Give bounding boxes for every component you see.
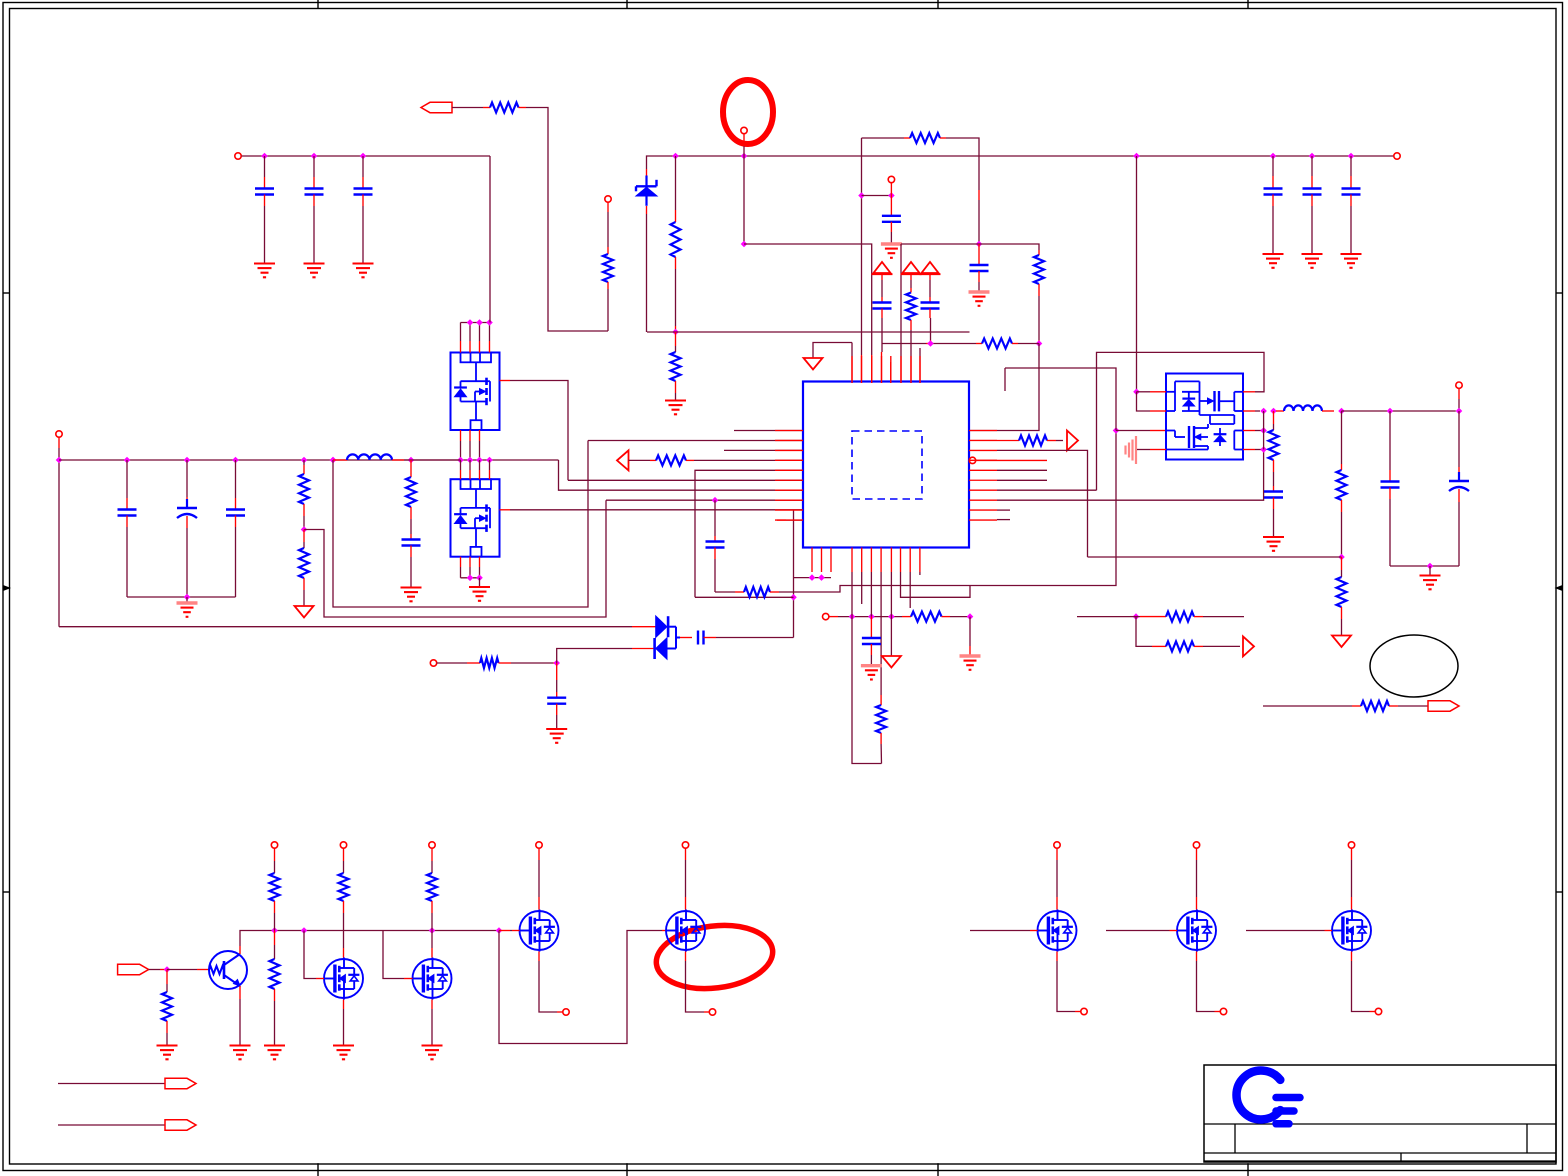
resistor R-616 <box>911 612 942 622</box>
resistor R-1273 chain <box>1273 411 1275 424</box>
junction 970-616 <box>967 613 974 620</box>
IC top pin stubs <box>851 358 853 383</box>
port out right <box>1067 431 1078 451</box>
ground 970 salmon <box>960 654 981 657</box>
junction cap bank2 3 <box>1348 153 1355 160</box>
junction 304-529 <box>301 526 308 533</box>
junction mid rail 304 <box>301 457 308 464</box>
resistor R-646 <box>1166 641 1194 651</box>
flag down right <box>1332 636 1351 648</box>
junction cap bank2 1 <box>1270 153 1277 160</box>
ground C-871 salmon <box>861 664 882 667</box>
capacitor C-891 <box>890 196 892 216</box>
wire to Q1 <box>167 969 197 971</box>
ground C-979 salmon <box>969 290 990 293</box>
black ellipse annotation <box>1370 635 1458 697</box>
wire port B <box>58 1124 165 1126</box>
resistor R-167 pulldown <box>166 970 168 985</box>
capacitor C13 <box>362 156 364 177</box>
junction mid rail 127 <box>124 457 131 464</box>
junction mid rail 235.5 <box>232 457 239 464</box>
Q-R right pin4 <box>1243 449 1255 451</box>
ground M1 <box>333 1044 354 1046</box>
border center arrow right <box>1555 585 1563 591</box>
capacitor C-871 <box>870 572 872 617</box>
wire sense out <box>1263 705 1352 707</box>
junction cap bank1 3 <box>360 153 367 160</box>
transistor Q1 prebiased NPN <box>209 951 247 989</box>
terminal 891 <box>888 176 894 182</box>
terminal diode input <box>430 660 436 666</box>
ground C12 <box>304 262 325 264</box>
resistor R-top-left <box>490 103 519 113</box>
wire vin1 rail <box>242 155 491 157</box>
junction mid rail fet 479.5 <box>476 457 483 464</box>
port out 706 <box>1428 701 1459 711</box>
ground 1273 <box>1263 536 1284 538</box>
resistor R-706 <box>1361 701 1389 711</box>
wire pin520 stub <box>777 519 786 521</box>
terminal stub mid <box>605 196 611 202</box>
red annotation ellipse top <box>723 80 773 144</box>
pullup R-343 <box>340 842 346 848</box>
resistor R-881 vertical chain <box>880 572 882 695</box>
vertical 793 <box>793 510 795 638</box>
terminal VSYS left <box>56 431 62 437</box>
terminal out <box>1456 382 1462 388</box>
resistor R-fb-top <box>910 133 940 143</box>
wire pin-r520 stub <box>997 519 1010 521</box>
wire out gnd row <box>1390 565 1459 567</box>
junction 557-663 <box>553 660 560 667</box>
zener diode D-zener <box>646 169 648 176</box>
IC top pins <box>851 382 853 384</box>
wire y616 row B <box>1077 616 1130 618</box>
wire y343 row <box>882 343 926 345</box>
junction zener-res node <box>672 153 679 160</box>
pullup R-274 chain <box>271 842 277 848</box>
junction R-a mid <box>672 329 679 336</box>
capacitor C21 <box>1272 156 1274 176</box>
M1 source gnd <box>343 1000 345 1010</box>
wire pin-r450 <box>997 450 1088 557</box>
junction cap bank2 2 <box>1309 153 1316 160</box>
capacitor C-127 <box>126 460 128 498</box>
wire pin480 <box>568 479 803 481</box>
title block frame <box>1204 1065 1556 1162</box>
vertical 861 long <box>861 138 863 355</box>
junction cap bank1 2 <box>311 153 318 160</box>
junction 744-244 <box>741 241 748 248</box>
resistor chain R-a <box>675 156 677 210</box>
wire zener row <box>647 331 970 333</box>
wire y368 elbow <box>1005 368 1116 431</box>
pgnd down flag left <box>295 606 314 618</box>
Q-R right pin3 <box>1243 430 1255 432</box>
chassis wire <box>1137 449 1150 451</box>
junction rail 1136 <box>1133 153 1140 160</box>
junction 167-969 <box>164 966 171 973</box>
wire mid rail <box>59 459 559 461</box>
Q1 collector wire <box>239 946 241 954</box>
wire pin-r510 stub <box>997 509 1010 511</box>
Q-B right pin <box>500 509 511 511</box>
M-1057 source <box>1056 952 1058 962</box>
M1 gate wire <box>304 931 316 979</box>
M3 gate wire <box>499 930 510 932</box>
pin 881 top <box>881 352 883 383</box>
wire pin-r480 stub <box>997 479 1047 481</box>
wire pin910 stub <box>909 572 911 608</box>
wire main VCC rail <box>647 156 1394 169</box>
port A <box>165 1078 196 1088</box>
Q-A top pins <box>460 323 462 342</box>
junction 979-244 <box>976 241 983 248</box>
wire pin470 <box>695 470 803 597</box>
M-1196.5 source <box>1196 952 1198 962</box>
junction 715-500 <box>712 497 719 504</box>
wire R-mid to corner <box>607 289 609 331</box>
pullup R-432 <box>429 842 435 848</box>
flag3 cap chain <box>929 275 931 281</box>
resistor R-fb-in <box>656 455 686 465</box>
node VIN1 terminal <box>235 153 241 159</box>
diode pair connector <box>669 626 676 628</box>
ground caps mid salmon <box>177 601 198 604</box>
resistor R-1039 <box>1038 250 1040 255</box>
junction 1116-430 <box>1113 427 1120 434</box>
port B <box>165 1120 196 1130</box>
IC bottom pins red <box>811 548 813 573</box>
inductor L2 <box>1284 405 1322 411</box>
border zone ticks bottom <box>317 1163 319 1176</box>
M-1351.5 source <box>1351 952 1353 962</box>
agnd down flag near IC <box>813 343 852 359</box>
wire pin-r500 long <box>997 450 1264 501</box>
diode D-up <box>632 626 656 628</box>
wire port to R <box>452 107 483 109</box>
wire pin440 <box>588 440 803 442</box>
wire 577 row <box>794 577 832 579</box>
junction bus 432 <box>429 927 436 934</box>
junction 793-597 <box>790 594 797 601</box>
terminal VCC right <box>1394 153 1400 159</box>
gate bus <box>275 930 500 932</box>
ground C23 <box>1341 253 1362 255</box>
ground M2 <box>422 1044 443 1046</box>
resistor R-mid vertical <box>603 254 613 282</box>
wire pin430 stub <box>734 430 803 432</box>
flag1 cap chain <box>881 275 883 281</box>
junction 1039-343 <box>1036 340 1043 347</box>
port ENABLE top-left <box>421 102 452 112</box>
dual MOSFET Q-B <box>451 479 500 557</box>
wire to right box pin3 <box>1116 430 1150 432</box>
ground 1430 <box>1420 574 1441 576</box>
MOSFET M1 <box>324 959 363 998</box>
junction 931-343 <box>927 340 934 347</box>
wire elbow 646 <box>1136 617 1152 647</box>
ground Q1 <box>230 1044 251 1046</box>
wire stub <box>607 212 609 247</box>
capacitor C-979 <box>978 244 980 265</box>
M-1351.5 drain <box>1348 842 1354 848</box>
MOSFET M3 <box>520 911 559 950</box>
IC right pins <box>969 430 997 432</box>
junction 1136-616 <box>1133 613 1140 620</box>
M-1057 drain <box>1054 842 1060 848</box>
wire y616 row A <box>838 616 902 618</box>
M4 drain <box>682 842 688 848</box>
border zone ticks left <box>3 292 10 294</box>
junction 861-195 <box>858 192 865 199</box>
wire pin500 <box>606 499 803 501</box>
wire y592 row <box>715 591 735 593</box>
junction mid rail 333 <box>330 457 337 464</box>
junction bus 499 <box>496 927 503 934</box>
M3 source out <box>538 952 540 962</box>
IC U1 body <box>803 382 969 548</box>
resistor R-diode <box>480 658 499 668</box>
wire diode net <box>557 649 632 664</box>
M2 gate wire <box>383 931 404 979</box>
ground 411 <box>401 586 422 588</box>
capacitor C-1390 <box>1389 411 1391 470</box>
wire R to down <box>526 108 608 332</box>
junction 187-597 <box>184 594 191 601</box>
resistor R-592 <box>744 587 770 597</box>
junction 59-460 <box>56 457 63 464</box>
border center arrow left <box>3 585 11 591</box>
resistor R-343 <box>982 339 1012 349</box>
MOSFET M-1351.5 <box>1332 911 1371 950</box>
wire bottom long rail <box>59 626 632 628</box>
wire res-top left leg <box>862 137 905 139</box>
capacitor C-ac <box>680 637 692 639</box>
resistor R-out-port <box>997 440 1019 442</box>
Q-R left pin2 elbow <box>1137 392 1151 411</box>
wire pin-r490 <box>997 489 1097 491</box>
junction 333-460 <box>330 457 337 464</box>
wire pin861 stub <box>861 572 863 604</box>
capacitor C-235 <box>235 460 237 498</box>
power flag 3 <box>922 262 939 273</box>
wire pin900 down <box>901 572 971 597</box>
R-C snubber 411 <box>410 460 412 477</box>
capacitor C22 <box>1311 156 1313 176</box>
wire pin-r470 stub <box>997 469 1047 471</box>
capacitor C-187 polarized <box>186 460 188 497</box>
M-1196.5 gate wire <box>1106 930 1170 932</box>
flag2 res chain <box>910 275 912 281</box>
ground C22 <box>1302 253 1323 255</box>
Q-B bottom pins <box>460 557 462 567</box>
Q-R left pin1 <box>1133 389 1140 396</box>
capacitor C12 <box>313 156 315 177</box>
wire QB out <box>510 509 803 511</box>
M-1057 gate wire <box>970 930 1030 932</box>
M4 source out <box>685 952 687 962</box>
bus 1263 <box>1263 411 1265 450</box>
ground C-557 <box>546 728 567 730</box>
diode D-down <box>656 638 667 659</box>
M3 drain <box>536 842 542 848</box>
Z wire to M4 gate <box>499 931 662 1044</box>
MOSFET M-1196.5 <box>1177 911 1216 950</box>
border zone ticks top <box>317 0 319 9</box>
capacitor C-557 <box>556 663 558 680</box>
Q-A bottom pins <box>460 430 462 441</box>
capacitor C23 <box>1350 156 1352 176</box>
junction 411-460 <box>408 457 415 464</box>
ground R-b <box>665 399 686 401</box>
junction mid rail fet 470 <box>467 457 474 464</box>
inductor L1 <box>347 454 392 460</box>
ground 274 <box>264 1044 285 1046</box>
MOSFET M4 <box>666 911 705 950</box>
port FB input <box>617 450 629 470</box>
ground C13 <box>353 262 374 264</box>
Q1 emitter wire <box>239 986 241 999</box>
capacitor C-1459 polarized <box>1458 411 1460 467</box>
M-1196.5 drain <box>1193 842 1199 848</box>
junction rail 744 <box>741 153 748 160</box>
terminal circled top <box>741 127 747 133</box>
resistor R-616b <box>1166 612 1194 622</box>
capacitor C-715 <box>714 500 716 536</box>
IC left pins <box>775 430 803 432</box>
wire 195 row <box>862 195 892 197</box>
MOSFET M2 <box>413 959 452 998</box>
junction 1341-411 <box>1338 408 1345 415</box>
Q-R right pin1 wrap <box>1243 391 1255 393</box>
wire y556 <box>1088 556 1342 558</box>
IC U1 thermal pad dashed <box>852 431 922 499</box>
resistor R-1342b <box>1341 570 1343 577</box>
junction mid rail fet 460.5 <box>457 457 464 464</box>
ground C-891 salmon <box>881 242 902 245</box>
divider R-304 chain <box>303 460 305 465</box>
junction cap bank1 1 <box>261 153 268 160</box>
wire QA top row <box>461 322 490 324</box>
red annotation ellipse bottom <box>653 919 777 995</box>
wire 597 row <box>695 596 794 598</box>
ground QB <box>469 586 490 588</box>
junction 1430-566 <box>1427 563 1434 570</box>
wire y368 stub down <box>1004 368 1006 391</box>
wire cap bottoms <box>127 596 236 598</box>
open pin circle <box>969 457 975 463</box>
wire pin490 <box>559 460 804 490</box>
capacitor C11 <box>264 156 266 177</box>
company logo <box>1237 1071 1281 1120</box>
wire port A <box>58 1083 165 1085</box>
Q-B top pins <box>460 460 462 470</box>
terminal below IC <box>823 613 829 619</box>
junction bus 274 <box>271 927 278 934</box>
wire pin450 stub <box>724 449 803 451</box>
M2 source gnd <box>431 1000 433 1010</box>
junction bus 304 <box>301 927 308 934</box>
wire y244 left segment <box>744 244 872 355</box>
resistor R-1342 chain <box>1341 411 1343 464</box>
wire pin852 down <box>852 572 882 764</box>
power flag 1 <box>874 262 891 273</box>
M-1351.5 gate wire <box>1246 930 1325 932</box>
junction 1342-556 <box>1338 554 1345 561</box>
dual MOSFET Q-A <box>451 353 500 431</box>
ground 167 <box>157 1044 178 1046</box>
dual MOSFET Q-R complementary <box>1166 374 1243 460</box>
port tri right 646 <box>1243 636 1254 656</box>
MOSFET M-1057 <box>1038 911 1077 950</box>
Q-R right pin2 <box>1243 410 1255 412</box>
wire rail to right FET <box>1136 156 1138 392</box>
junction mid rail 187 <box>184 457 191 464</box>
wire y244 right segment <box>901 243 979 245</box>
resistor R-b <box>675 332 677 346</box>
junction 891-195 <box>888 192 895 199</box>
Q-A right pin <box>500 380 511 382</box>
output rail right <box>1342 410 1456 412</box>
power flag 2 <box>903 262 920 273</box>
agnd flag below IC <box>890 572 892 656</box>
ground C11 <box>254 262 275 264</box>
port ctrl input <box>118 964 149 974</box>
wire rail to QA <box>489 156 491 323</box>
wire pin919 stub <box>919 572 921 575</box>
chassis sym <box>1124 446 1126 455</box>
border zone ticks right <box>1556 292 1563 294</box>
ground C21 <box>1263 253 1284 255</box>
junction mid rail fet 489.5 <box>486 457 493 464</box>
